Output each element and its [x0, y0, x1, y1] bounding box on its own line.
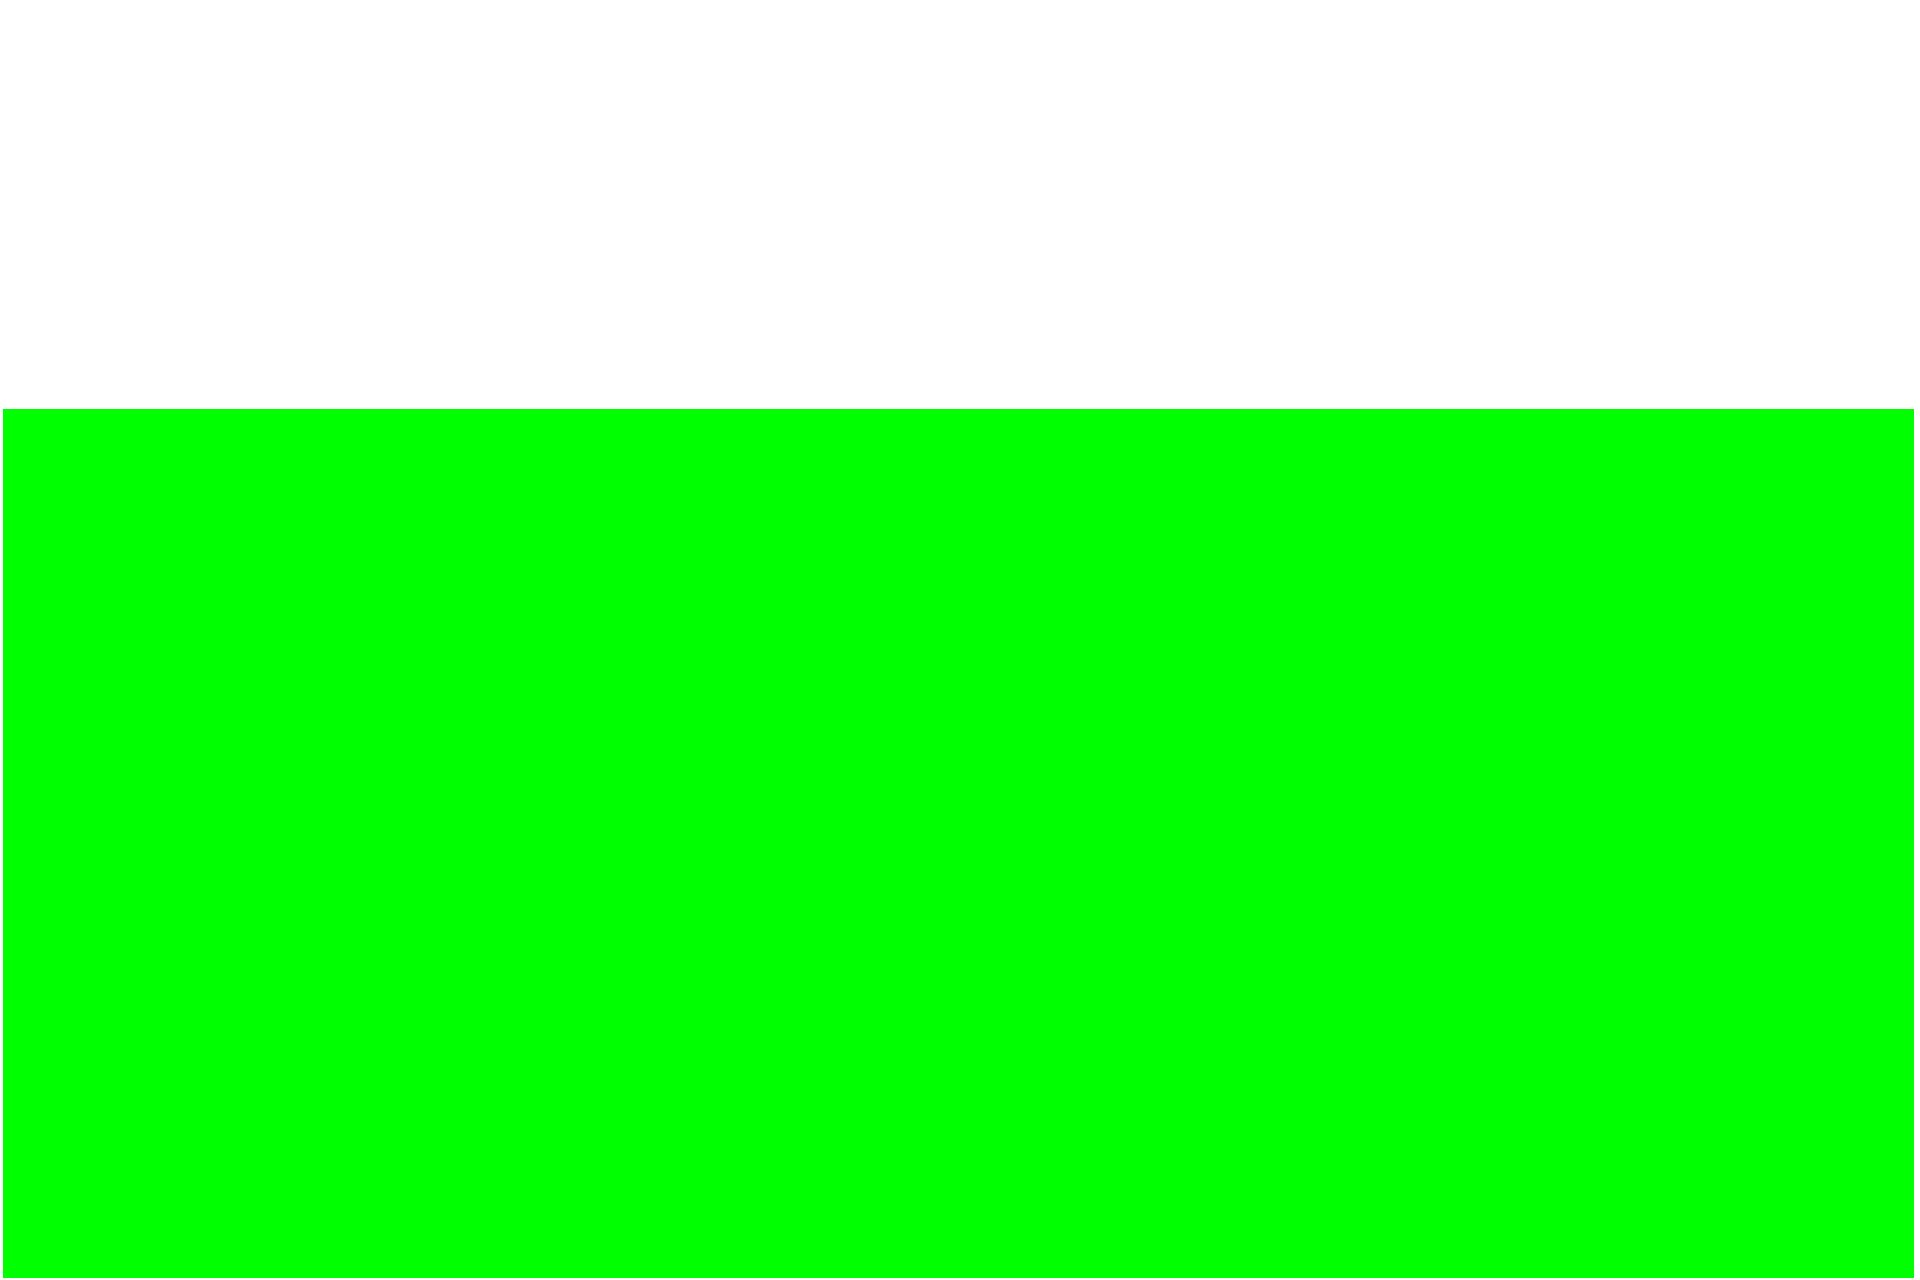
green screen rectangle — [3, 409, 1914, 1278]
